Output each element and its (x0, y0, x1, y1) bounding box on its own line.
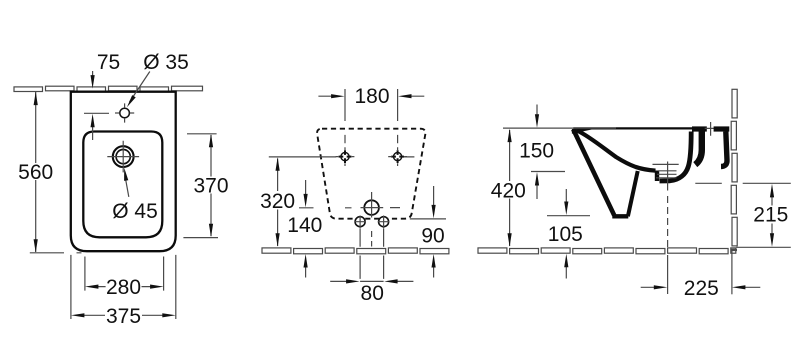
dimension 150 upper arrow (536, 105, 538, 118)
bowl rear wall curve (660, 132, 692, 182)
svg-text:225: 225 (684, 277, 719, 300)
mounting level line (695, 182, 722, 184)
rim block left (692, 126, 707, 131)
fixing hole cross (side) (705, 122, 717, 136)
215 extension lines (736, 183, 791, 247)
svg-text:140: 140 (287, 214, 322, 237)
front exterior diagonal (573, 129, 614, 215)
dimension 75 lower arrow (92, 124, 94, 140)
svg-text:90: 90 (421, 224, 444, 247)
svg-text:Ø 35: Ø 35 (143, 51, 189, 74)
water inlet circle (364, 200, 379, 215)
rim tip wedge (572, 129, 594, 134)
dimension 370 line (210, 135, 212, 236)
560 bottom extension line (30, 252, 82, 254)
foot bottom edge (612, 214, 628, 218)
svg-text:420: 420 (491, 180, 526, 203)
drain hole outer circle (O45) (113, 146, 134, 167)
dimension 80 line (330, 280, 413, 282)
dimension 90 upper arrow (433, 186, 435, 208)
280 extension lines (85, 257, 164, 291)
left fixing hole ticks (339, 150, 352, 163)
dimension 180 line (318, 95, 424, 97)
left outlet circle (355, 217, 365, 227)
dimension 320 line (277, 159, 279, 247)
dimension 105 lower arrow (565, 264, 567, 279)
bidet rim top line (573, 127, 692, 129)
left fixing hole (341, 153, 349, 161)
svg-text:370: 370 (193, 175, 228, 198)
bidet rear outline (dashed trapezoid) (317, 129, 425, 219)
svg-text:180: 180 (354, 85, 389, 108)
bidet outer body outline (plan) (71, 92, 176, 252)
svg-text:320: 320 (260, 190, 295, 213)
bidet inner basin outline (plan) (83, 132, 162, 238)
floor hatch band (rear view) (262, 248, 449, 254)
drain valve ladder lines (656, 171, 677, 178)
svg-text:560: 560 (18, 161, 53, 184)
dimension 215 line (771, 195, 773, 237)
drain crosshair (107, 141, 139, 173)
leader for O35 (130, 72, 150, 103)
dimension 420 line (509, 130, 511, 246)
inlet centerline horizontal (299, 207, 400, 209)
fixing holes centerline (269, 156, 415, 158)
dimension 90 lower arrow (433, 265, 435, 278)
dimension 150 lower arrow (536, 183, 538, 200)
svg-text:280: 280 (106, 276, 141, 299)
bowl floor drop (655, 171, 659, 182)
svg-text:375: 375 (106, 305, 141, 328)
80 extension lines (360, 229, 384, 279)
left outlet crosshair (354, 216, 366, 229)
svg-text:Ø 45: Ø 45 (112, 200, 158, 223)
svg-text:105: 105 (548, 223, 583, 246)
90 extension line (410, 218, 446, 220)
svg-text:75: 75 (97, 51, 120, 74)
370 extension lines (183, 134, 218, 238)
drain centerline vertical (667, 162, 669, 295)
wall hatch band (side) (731, 89, 737, 250)
dimension 140 lower arrow (305, 265, 307, 278)
dimension 140 upper arrow (305, 180, 307, 197)
tap hole crosshair ticks (115, 103, 134, 122)
drain hole inner circle (116, 150, 130, 164)
105 extension line (547, 215, 590, 217)
svg-text:150: 150 (519, 140, 554, 163)
rear slot inner wall (695, 132, 702, 165)
dimension 75 upper arrow (92, 71, 94, 81)
dimension 105 upper arrow (565, 189, 567, 205)
dimension 225 line (641, 286, 761, 288)
inlet centerline vertical (371, 192, 373, 247)
tap hole circle (O35) (120, 108, 130, 118)
bowl interior front curve (577, 131, 656, 171)
floor hatch band (side view) (478, 248, 736, 254)
rim block right (714, 126, 730, 131)
180 extension lines (345, 89, 398, 143)
svg-text:80: 80 (361, 282, 384, 305)
dimension 375 line (82, 314, 166, 316)
150 lower extension line (531, 171, 565, 173)
420 top extension line (503, 127, 616, 129)
wall hatch band (plan) (14, 86, 203, 91)
drain centerline horizontal (653, 163, 679, 165)
right fixing hole ticks (391, 150, 404, 163)
dimension 280 line (96, 286, 153, 288)
375 extension lines (71, 255, 176, 319)
right outlet crosshair (378, 216, 390, 229)
leader for O45 (125, 178, 129, 197)
right fixing hole (394, 153, 402, 161)
right outlet circle (379, 217, 389, 227)
dimension 560 line (35, 92, 37, 253)
svg-text:215: 215 (753, 204, 788, 227)
tap hole centerline (75 reference) (84, 112, 109, 114)
rear bracket leg (721, 132, 727, 167)
225 right extension line (731, 251, 733, 295)
foot rear edge (628, 171, 638, 216)
